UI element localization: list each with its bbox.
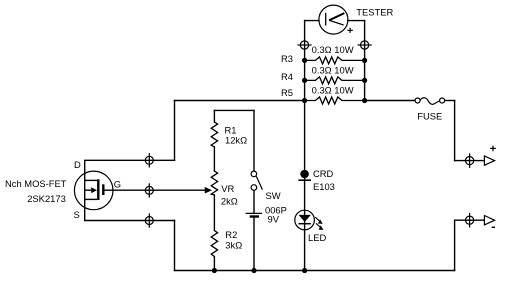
wire right rail lower (minus to bottom) <box>454 220 456 270</box>
svg-text:12kΩ: 12kΩ <box>225 135 247 146</box>
svg-text:R3: R3 <box>281 53 293 64</box>
svg-text:R2: R2 <box>225 229 237 240</box>
wire bottom rail <box>175 270 455 272</box>
battery B1 006P 9V <box>246 213 262 216</box>
label plus <box>490 146 496 152</box>
junction dots resistor bank <box>302 58 367 103</box>
resistor R3 <box>305 57 365 64</box>
node terminal top-left crossed circle <box>297 41 311 49</box>
wire fuse to right corner <box>445 100 455 102</box>
node terminal gate crossed circle <box>145 183 153 197</box>
svg-text:2kΩ: 2kΩ <box>221 195 238 206</box>
svg-text:LED: LED <box>308 232 326 243</box>
svg-text:2SK2173: 2SK2173 <box>27 193 66 204</box>
resistor R2 <box>211 231 217 257</box>
wire tester right link <box>348 20 365 22</box>
wire main top rail <box>175 100 305 102</box>
wire gate arrow into VR <box>205 188 211 193</box>
svg-text:D: D <box>74 159 81 170</box>
node terminal source crossed circle <box>145 213 153 227</box>
svg-text:Nch MOS-FET: Nch MOS-FET <box>5 178 67 189</box>
wire drain row <box>85 159 175 161</box>
wire R5 row to fuse <box>365 100 416 102</box>
node terminal top-right crossed circle <box>358 41 372 49</box>
svg-text:3kΩ: 3kΩ <box>225 240 242 251</box>
junction dots bottom rail <box>212 268 307 273</box>
wire divider chain segments <box>213 110 215 270</box>
svg-text:SW: SW <box>266 190 281 201</box>
resistor R1 <box>211 122 217 147</box>
wire right bus (tester to R5 row) <box>364 21 366 101</box>
potentiometer VR <box>211 171 217 195</box>
terminal minus arrow <box>484 216 494 225</box>
svg-text:R4: R4 <box>281 71 293 82</box>
wire switch battery branch <box>253 110 255 270</box>
terminal plus arrow <box>484 156 494 165</box>
wire minus terminal link <box>455 219 485 221</box>
resistor R5 <box>305 97 365 104</box>
svg-text:FUSE: FUSE <box>417 110 442 121</box>
svg-text:G: G <box>114 179 121 190</box>
svg-text:R5: R5 <box>281 87 293 98</box>
wire right rail upper (fuse to plus) <box>454 101 456 161</box>
LED D1 <box>295 210 324 230</box>
terminal plus output crossed circle <box>466 153 474 168</box>
svg-text:0.3Ω 10W: 0.3Ω 10W <box>312 64 354 75</box>
node terminal drain crossed circle <box>145 153 153 167</box>
wire gate row <box>105 189 206 191</box>
svg-text:VR: VR <box>221 183 234 194</box>
svg-text:S: S <box>74 209 80 220</box>
fuse F1 <box>415 98 445 105</box>
terminal minus output crossed circle <box>466 213 474 228</box>
diode CRD E103 <box>298 170 311 180</box>
resistor R4 <box>305 77 365 84</box>
wire tester left link <box>305 20 319 22</box>
meter M1 TESTER <box>319 5 353 34</box>
svg-text:0.3Ω 10W: 0.3Ω 10W <box>312 44 354 55</box>
transistor Q1 Nch MOSFET 2SK2173 <box>74 160 113 220</box>
wire plus terminal link <box>455 160 485 162</box>
svg-text:9V: 9V <box>268 214 280 225</box>
svg-text:CRD: CRD <box>313 168 334 179</box>
switch SW <box>251 171 262 190</box>
svg-text:E103: E103 <box>313 181 335 192</box>
svg-text:TESTER: TESTER <box>356 6 393 17</box>
wire left bus (tester to bottom rail) <box>304 21 306 271</box>
wire left rail upper (top to drain row) <box>174 101 176 161</box>
wire left rail lower (source row to bottom) <box>174 221 176 271</box>
wire source row <box>85 220 175 222</box>
svg-text:0.3Ω 10W: 0.3Ω 10W <box>312 84 354 95</box>
wire divider top link <box>214 109 254 111</box>
label minus <box>492 226 495 228</box>
